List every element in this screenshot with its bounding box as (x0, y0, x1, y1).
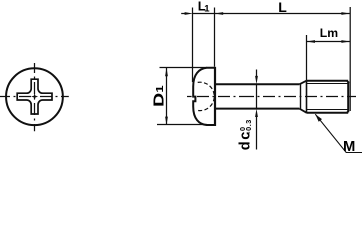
D1 top arrowhead (165, 68, 168, 76)
extension line L1 right / L left (bearing face) (214, 8, 216, 67)
side view: thread major diameter top line (307, 80, 349, 82)
dimension dc lower stub (256, 115, 258, 150)
L right arrowhead (341, 12, 349, 15)
svg-text:L: L (278, 0, 287, 15)
svg-text:dc0-0.3: dc0-0.3 (238, 119, 254, 150)
L left arrowhead (215, 12, 223, 15)
dimension line Lm (307, 41, 350, 43)
side view: thread root bottom line (307, 109, 348, 111)
side view: axis centerline right part (250, 96, 356, 98)
leader line for M (315, 114, 362, 152)
front view: phillips cross recess outline (17, 79, 52, 114)
front view: recess center star (31, 93, 38, 100)
side view: full thread start vertical line (306, 80, 308, 113)
side view: hidden recess dashed arc (198, 82, 215, 110)
side view: main axis centerline (187, 96, 192, 98)
extension line D1 bottom (157, 124, 207, 126)
extension line L / Lm right (screw tip) (349, 7, 351, 111)
side view: thread runout boundary line (300, 84, 302, 108)
side view: thread lead-in chamfer top (299, 81, 306, 85)
dimension dc upper stub (256, 70, 258, 79)
side view: head bearing face line (214, 67, 216, 126)
side view: thread end chamfer bottom corner (347, 111, 349, 113)
D1 bottom arrowhead (165, 117, 168, 125)
dimension dc line through shank (256, 84, 258, 108)
side view: shank bottom line (215, 108, 299, 110)
dimension line L (215, 13, 350, 15)
side view: screw end face line (347, 81, 349, 112)
front view: horizontal centerline (0, 96, 69, 98)
side view: shank top line (215, 83, 299, 85)
side view: thread major diameter bottom line (307, 112, 349, 114)
dimension L1 left arrow stub (181, 13, 187, 15)
Lm right arrowhead (341, 40, 349, 43)
leader arrowhead (315, 114, 322, 122)
side view: axis centerline left part (197, 96, 250, 98)
side view: thread end chamfer top corner (347, 81, 349, 83)
svg-text:L1: L1 (198, 0, 211, 14)
svg-text:D1: D1 (150, 85, 167, 107)
Lm left arrowhead (307, 40, 315, 43)
dimension line D1 (166, 68, 168, 125)
svg-text:Lm: Lm (320, 26, 338, 40)
front view: head outer circle (6, 68, 63, 125)
extension line Lm left (thread start) (306, 35, 308, 80)
front view: vertical centerline (34, 63, 36, 131)
side view: pan head outline with recess notch (193, 68, 215, 125)
side view: thread lead-in chamfer bottom (299, 109, 306, 113)
extension line D1 top (160, 67, 208, 69)
dimension line L1 (between extension lines) (193, 13, 215, 15)
extension line L1 left (top of head dome) (192, 8, 194, 83)
svg-text:M: M (343, 139, 355, 155)
side view: thread root top line (307, 83, 348, 85)
